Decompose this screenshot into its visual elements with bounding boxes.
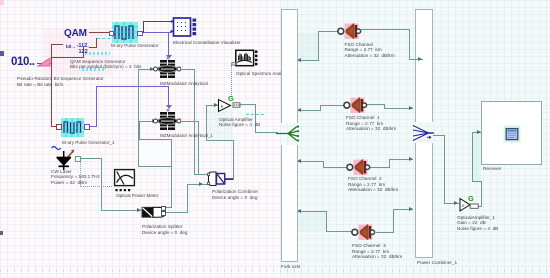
wire into amplifier input (206, 105, 219, 106)
wire amplifier_1 out (477, 206, 482, 207)
wire combiner out vertical x233 (233, 140, 234, 180)
wire QAM Q-out long vertical x51 (51, 57, 52, 127)
wire fork out1 (296, 60, 319, 61)
arrow into MZM_1 top (166, 105, 172, 109)
wire FSO2 into combiner (389, 159, 413, 160)
wire QAM I-out to M-ary PG input (89, 32, 113, 33)
Optical spectrum analyzer icon (231, 49, 258, 68)
wire MZM_1 carrier horizontal y139 (139, 139, 172, 140)
M-ary PG output port (137, 31, 143, 37)
selection dashes near fork (246, 114, 264, 115)
wire combiner out stub (224, 179, 234, 180)
wire into combiner in1 (194, 174, 208, 175)
fork icon (276, 123, 302, 144)
wire FSO0 vertical x409 (409, 29, 410, 60)
wire dotted laser tap down (80, 160, 81, 187)
Electrical constellation visualizer (170, 17, 198, 37)
wire ECV pin1 vertical x143 (143, 21, 144, 33)
arrow inside power combiner input 1 (418, 57, 422, 61)
tint loop fork out1 (297, 33, 318, 60)
wire combiner out horizontal y140 (206, 140, 234, 141)
wire FSO3 into combiner (393, 209, 413, 210)
QAM label (70, 59, 142, 70)
receiver label (483, 166, 502, 172)
Receiver subsystem box (481, 101, 542, 165)
wire ECV pin1 horizontal y21 (143, 21, 173, 22)
bottom ruler hairline (0, 269, 550, 272)
FSO channel 0 (336, 22, 363, 41)
wire dotted to power meter (80, 186, 112, 187)
PRBS output triangle (37, 56, 53, 67)
arrow into combiner port1 (417, 57, 421, 61)
OA label (219, 117, 260, 128)
wire branch down to MZM top port (168, 32, 169, 59)
wire combiner out vertical x444 (444, 135, 445, 204)
wire into receiver (472, 132, 481, 133)
wire amp1 vertical x481 (481, 181, 482, 206)
MZM label (160, 81, 208, 87)
wire fork out4 vertical (326, 211, 327, 232)
power combiner icon (412, 123, 436, 142)
wire splitter out1 stub (164, 207, 172, 208)
QAM sequence generator icon (64, 29, 94, 42)
wire segment into power combiner input 1 (over box) (415, 59, 423, 60)
arrow into MZM carrier (150, 67, 154, 71)
M-ary pulse generator block (112, 22, 138, 43)
wire combiner out vertical x206 (206, 105, 207, 141)
wire FSO1 jog (384, 104, 385, 109)
Power combiner tall box (415, 9, 433, 122)
wire amp1 horizontal y181 (472, 181, 482, 182)
arrow fork out3 (297, 159, 301, 163)
arrow into receiver (477, 130, 481, 134)
wire OSA dotted tap (231, 65, 232, 99)
wire FSO0 into combiner (409, 59, 421, 60)
MZ modulator analytical icon (153, 57, 181, 81)
M-ary PG label (111, 43, 158, 49)
wire MZM_1 carrier vertical x139 (139, 121, 140, 140)
wire selected dashed cyan (97, 38, 116, 39)
arrow into MZM_1 carrier (152, 119, 156, 123)
wire PRBS to QAM into input (51, 44, 63, 45)
wire amp1 vertical x472 (472, 132, 473, 181)
arrow into MZM top (166, 55, 172, 59)
wire into fork input (255, 132, 278, 133)
wire MZM out (178, 69, 195, 70)
Optical power meter icon (113, 168, 136, 193)
right region teal tint (280, 0, 550, 278)
svg-text:G: G (468, 194, 474, 203)
ECV label (173, 40, 241, 46)
left region pink tint (0, 0, 280, 278)
wire amplifier out (240, 104, 256, 105)
wire into M-ary PG_1 input (51, 126, 59, 127)
arrow into amplifier (214, 103, 218, 107)
svg-text:E: E (462, 203, 465, 208)
combiner label (212, 189, 258, 200)
wire MZM_1 out (178, 121, 199, 122)
wire FSO0 out (361, 29, 410, 30)
wire laser to splitter (101, 210, 141, 211)
CW laser output port (75, 156, 81, 162)
FSO channel 3 (350, 223, 377, 242)
arrow into combiner port2 (409, 106, 413, 110)
wire fork out2 vertical (320, 105, 321, 111)
wire M-ary PG_1 loop down to MZM_1 top (168, 86, 169, 108)
corner pink artifact (0, 0, 4, 5)
splitter out ports (161, 206, 166, 211)
wire FSO2 jog up (389, 159, 390, 168)
wire x171 vertical (171, 139, 172, 208)
FSO 0 label (345, 42, 395, 59)
wire fork out4 to FSO3 (326, 231, 352, 232)
wire FSO1 out (366, 104, 385, 105)
M-ary PG_1 output port (84, 124, 90, 130)
wire fork out2 to FSO1 (320, 105, 343, 106)
CW laser icon (48, 144, 80, 172)
wire fork out1 to FSO0 (318, 31, 338, 32)
tint loop receiver amp (473, 133, 481, 181)
wire FSO1 into combiner (384, 108, 413, 109)
tint loop fork out4 (297, 212, 326, 231)
FSO channel 1 (342, 96, 369, 115)
PRBS generator icon (11, 57, 37, 70)
Polarization combiner icon (206, 170, 235, 188)
cyan artifact strip A (85, 52, 110, 56)
wire combiner out (433, 135, 445, 136)
wire QAM Q-out down stub (83, 47, 84, 58)
Fork 1xN tall box (281, 9, 298, 123)
wire M-ary PG out to ECV pin2 (141, 32, 172, 33)
Optical amplifier icon (217, 92, 243, 114)
wire fork out1 vertical (318, 31, 319, 61)
wire QAM out2 stub up (96, 38, 97, 48)
Polarization splitter icon (141, 206, 166, 219)
wire MZM out vertical x194 (194, 69, 195, 175)
tint loop combiner S (207, 106, 233, 140)
wire amp out vertical x255 (255, 104, 256, 133)
OA_1 label (457, 215, 498, 232)
arrow fork out4 (297, 209, 301, 213)
OSA label (236, 71, 290, 77)
wire fork out3 vertical (323, 161, 324, 168)
wire FSO2 out (370, 167, 390, 168)
FSO 3 label (352, 243, 402, 260)
wire PRBS to QAM vertical (51, 44, 52, 64)
wire into MZM carrier input (138, 69, 154, 70)
wire QAM out2 stub right (89, 47, 97, 48)
OPM label (116, 193, 158, 199)
arrow into combiner port4 (409, 207, 413, 211)
PRBS label (17, 76, 104, 87)
wire laser out (79, 158, 102, 159)
wire QAM Q-out horizontal y57 (51, 57, 84, 58)
svg-text:E: E (221, 104, 224, 109)
wire laser down (101, 158, 102, 211)
wire FSO3 out (376, 232, 394, 233)
Optical amplifier_1 icon (457, 189, 483, 213)
cyan artifact strip B (82, 67, 104, 71)
FSO 2 label (348, 176, 398, 193)
FSO 1 label (346, 115, 396, 132)
wire FSO3 jog up (393, 209, 394, 233)
wire fork out2 (296, 110, 321, 111)
MZM_1 label (160, 133, 213, 139)
wire M-ary PG_1 loop vertical x96 (96, 86, 97, 127)
arrow into amplifier_1 (454, 201, 458, 205)
arrow fork out2 (297, 108, 301, 112)
wire fork out3 (296, 161, 324, 162)
wire MZM_1 out vertical x198 (198, 121, 199, 175)
tint loop left of MZMs (139, 141, 171, 166)
wire y166 horizontal (138, 166, 172, 167)
wire M-ary PG_1 loop horizontal y86 (96, 86, 169, 87)
wire splitter out1 vertical x138 (138, 69, 139, 167)
wire fork out3 to FSO2 (323, 167, 346, 168)
M-ary pulse generator_1 block (61, 118, 84, 137)
wire splitter out2 to combiner in2 (187, 184, 208, 185)
M-ary PG_1 input port (56, 124, 62, 130)
receiver inner icon (503, 125, 521, 143)
wire into amplifier_1 (444, 203, 459, 204)
splitter label (142, 224, 187, 235)
svg-text:G: G (228, 94, 234, 103)
wire fork out4 (296, 211, 327, 212)
arrow into splitter (137, 208, 141, 212)
left edge cut text marks (0, 51, 4, 56)
wire splitter out2 stub (164, 212, 188, 213)
arrow into combiner in2 (199, 182, 203, 186)
fork label (281, 264, 300, 270)
wire PRBS to QAM horizontal (37, 63, 52, 64)
arrow fork out1 (297, 58, 301, 62)
MZ modulator analytical_1 icon (153, 109, 181, 133)
arrow into combiner port3 (409, 157, 413, 161)
wire into MZM_1 carrier input (139, 121, 156, 122)
FSO channel 2 (345, 158, 372, 177)
wire M-ary PG_1 out stub (88, 126, 97, 127)
CW laser label (51, 169, 100, 186)
M-ary PG input port (109, 31, 115, 37)
wire splitter out2 vertical x187 (187, 184, 188, 213)
power combiner label (417, 260, 457, 266)
tint around QAM area (44, 28, 112, 75)
M-ary PG_1 label (62, 140, 115, 146)
